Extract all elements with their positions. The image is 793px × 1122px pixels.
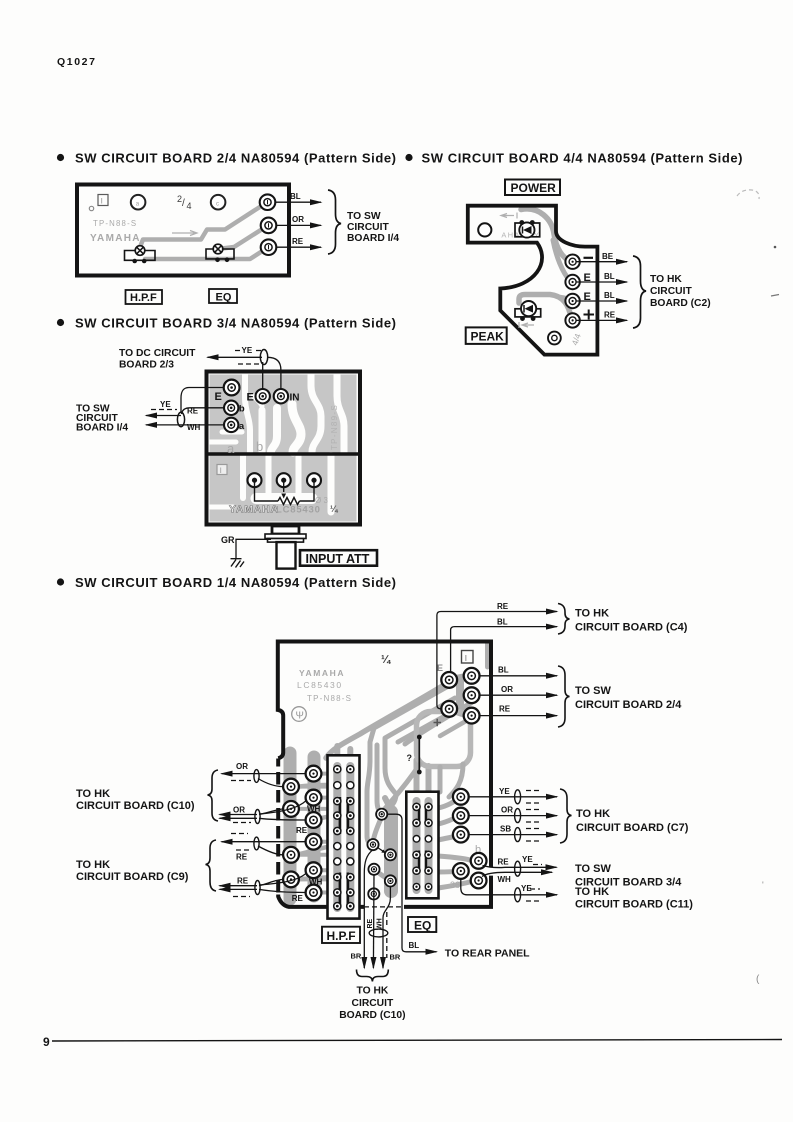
svg-text:LC85430: LC85430 — [297, 680, 343, 690]
mount hole c — [211, 195, 226, 210]
connector EQ pin r1 — [413, 803, 420, 810]
dashed bottom verticals — [386, 912, 388, 958]
pad BL — [260, 194, 276, 210]
connector HPF pin r5 — [334, 827, 341, 834]
trace eq to SB pad — [438, 836, 460, 841]
svg-text:TP-N88-S: TP-N88-S — [307, 694, 352, 703]
pot flange narrow — [268, 539, 304, 543]
trace mid column feed — [385, 798, 391, 812]
svg-text:YE: YE — [242, 346, 253, 355]
svg-text:INPUT ATT: INPUT ATT — [306, 552, 370, 566]
transistor POWER — [515, 223, 540, 237]
pad BL24 — [464, 668, 480, 684]
svg-text:RE: RE — [187, 407, 199, 416]
section title SW CIRCUIT BOARD 2/4 — [57, 154, 64, 161]
label POWER — [505, 180, 560, 196]
pad SB7 — [453, 827, 469, 843]
svg-text:Ø 3: Ø 3 — [315, 496, 328, 505]
pad plus — [441, 701, 457, 717]
section title SW CIRCUIT BOARD 4/4 — [405, 154, 412, 161]
wire branch OR2 — [259, 879, 283, 885]
pad M2 — [367, 839, 378, 850]
wire WH — [146, 424, 224, 426]
footer rule — [52, 1040, 782, 1042]
wire jumper M2-M3 — [378, 848, 384, 852]
svg-text:OR: OR — [236, 762, 248, 771]
wire YE dashed left — [151, 409, 177, 411]
wire RE to C4 — [437, 612, 557, 709]
svg-text:SW CIRCUIT BOARD 1/4 NA80594 (: SW CIRCUIT BOARD 1/4 NA80594 (Pattern Si… — [75, 575, 396, 590]
svg-text:OR: OR — [292, 215, 304, 224]
pad OR7 — [453, 808, 469, 824]
trace blob top pads — [450, 677, 470, 714]
pot pad 2 — [277, 473, 291, 487]
margin speck — [774, 246, 777, 249]
trace power upper — [521, 209, 571, 262]
transistor PEAK — [515, 309, 541, 317]
pad a — [224, 418, 238, 432]
svg-text:WH: WH — [307, 805, 321, 814]
trace band C — [398, 712, 452, 742]
wire branch RE — [259, 818, 306, 820]
pad L-B4 — [306, 834, 322, 850]
silk arrow mark lower — [519, 322, 534, 328]
label EQ connector — [408, 917, 436, 932]
svg-text:RE: RE — [236, 853, 248, 862]
fiducial square 1 — [462, 651, 474, 664]
svg-text:SB: SB — [500, 825, 511, 834]
svg-text:LC85430: LC85430 — [276, 505, 321, 516]
svg-text:RE: RE — [292, 237, 304, 246]
svg-text:BR: BR — [390, 953, 401, 962]
svg-text:TP-N89-S: TP-N89-S — [330, 404, 339, 450]
connector EQ gray fill — [417, 801, 429, 890]
svg-text:/: / — [182, 198, 185, 209]
wire down WH — [383, 886, 390, 968]
connector HPF gray fill — [337, 766, 350, 908]
wire to DC arrow — [208, 356, 263, 358]
pad E lower — [565, 294, 579, 308]
trace hpf-left curves — [298, 785, 333, 879]
channel white paths lower — [210, 456, 332, 513]
svg-text:36: 36 — [450, 880, 460, 890]
svg-text:RE: RE — [498, 858, 510, 867]
silk arrow mark — [172, 231, 197, 236]
trace free pads link 1 — [373, 816, 382, 844]
brace to SW board 1/4 — [328, 190, 341, 254]
svg-text:l: l — [465, 654, 467, 663]
wire RE to SW34 — [483, 866, 557, 868]
pad L-B5 — [306, 862, 322, 878]
svg-text:CIRCUIT BOARD (C4): CIRCUIT BOARD (C4) — [575, 622, 688, 634]
svg-text:BL: BL — [604, 272, 615, 281]
svg-text:YE: YE — [160, 400, 171, 409]
pad RE — [261, 239, 277, 255]
dashed A — [231, 780, 251, 782]
svg-text:¼: ¼ — [381, 654, 391, 666]
wire E to left — [181, 388, 224, 414]
svg-text:WH: WH — [377, 918, 384, 930]
svg-text:OR: OR — [233, 806, 245, 815]
oval junction A — [254, 770, 259, 783]
dashed C9 bottom — [233, 896, 250, 898]
mount hole a — [131, 195, 146, 210]
trace eq to mid pad — [438, 869, 460, 875]
svg-text:IN: IN — [290, 393, 300, 404]
svg-text:l: l — [101, 199, 103, 206]
board 1/4 outline left-top-right — [278, 895, 364, 907]
svg-text:TO HK: TO HK — [575, 886, 609, 898]
trace finger HPF2 — [347, 749, 353, 756]
svg-text:9: 9 — [43, 1035, 50, 1049]
pad L-B1 — [306, 766, 322, 782]
dashed C9 top — [231, 833, 248, 835]
svg-text:TO DC CIRCUIT: TO DC CIRCUIT — [119, 348, 196, 359]
svg-text:BL: BL — [409, 941, 420, 950]
pad M4 — [368, 864, 379, 875]
margin faint mark — [737, 190, 759, 199]
brace SW24 — [558, 666, 570, 727]
pad E upper — [565, 275, 579, 289]
label EQ — [209, 289, 237, 303]
wire SB to C7 — [469, 834, 557, 836]
connector HPF pin r10 — [334, 903, 341, 910]
svg-text:TO SW: TO SW — [347, 211, 381, 222]
svg-text:H.P.F: H.P.F — [130, 292, 157, 304]
svg-text:BL: BL — [497, 617, 508, 626]
pad bottom — [548, 332, 561, 345]
trace power inner — [553, 240, 571, 282]
pad L-A3 — [283, 847, 299, 863]
trace loop ring — [417, 712, 471, 767]
wire down RE — [372, 874, 375, 968]
trace eq to WH pad — [438, 881, 474, 888]
svg-text:TO SW: TO SW — [575, 685, 611, 697]
svg-text:BOARD (C2): BOARD (C2) — [650, 298, 711, 309]
trace band F — [440, 721, 466, 736]
silk arrow mark — [501, 213, 517, 219]
trace peak lower — [519, 295, 571, 318]
pad M3 — [385, 849, 396, 860]
connector EQ pin r5 — [413, 867, 420, 874]
trace loop tail 1 — [438, 767, 443, 792]
pin label plus — [584, 310, 595, 320]
trace eq interior 2 — [424, 800, 433, 892]
wire BL to rear panel — [388, 814, 437, 952]
svg-text:TO HK: TO HK — [356, 986, 388, 997]
connector EQ pin r2 — [413, 819, 420, 826]
wire RE — [182, 408, 224, 414]
pad OR24 — [464, 687, 480, 703]
jumper wire — [418, 737, 420, 772]
svg-text:RE: RE — [292, 894, 304, 903]
pad minus — [565, 255, 579, 269]
wire branch A — [258, 779, 283, 787]
pad M5 — [385, 875, 396, 886]
label H.P.F — [126, 290, 163, 304]
connector EQ pin r6 — [413, 883, 420, 890]
trace left band 1 — [284, 753, 297, 899]
svg-text:RE: RE — [499, 705, 511, 714]
svg-text:TO SW: TO SW — [575, 863, 611, 875]
pad YE7 — [453, 789, 469, 805]
pot pad 1 — [248, 473, 262, 487]
svg-text:4/4: 4/4 — [569, 332, 583, 347]
svg-text:CIRCUIT BOARD (C7): CIRCUIT BOARD (C7) — [576, 822, 689, 834]
svg-text:WH: WH — [309, 878, 323, 887]
trace to free pad — [383, 764, 420, 811]
svg-text:OR: OR — [501, 806, 513, 815]
svg-text:BL: BL — [498, 666, 509, 675]
connector EQ body — [406, 792, 438, 899]
wire BL to SW24 — [480, 675, 557, 677]
wire E up — [262, 362, 264, 389]
board 4/4 outline — [468, 206, 598, 355]
margin speck — [771, 295, 779, 297]
connector HPF pin r1 — [334, 766, 341, 773]
svg-text:CIRCUIT: CIRCUIT — [347, 222, 389, 233]
trace band E — [405, 703, 471, 744]
oval junction C — [254, 837, 259, 850]
pad plus — [565, 313, 579, 327]
svg-text:RE: RE — [237, 877, 249, 886]
svg-text:SW CIRCUIT BOARD 3/4 NA80594 (: SW CIRCUIT BOARD 3/4 NA80594 (Pattern Si… — [75, 316, 396, 331]
connector HPF contact bars — [340, 797, 348, 906]
switch EQ (diode symbol) — [213, 244, 223, 254]
copper pour lower — [210, 456, 357, 522]
dashed B — [233, 822, 251, 824]
label HPF connector — [322, 927, 360, 943]
wire branch C — [258, 846, 283, 855]
wire BE — [576, 261, 627, 263]
svg-text:WH: WH — [187, 423, 201, 432]
pad L-A4 — [283, 872, 299, 888]
pad RE24 — [464, 708, 480, 724]
board 3/4 outline — [207, 372, 361, 525]
connector HPF pin r4 — [334, 812, 341, 819]
svg-text:Q1027: Q1027 — [57, 56, 97, 68]
trace finger EQ1 — [414, 760, 420, 792]
svg-text:': ' — [762, 880, 764, 890]
brace C7 — [560, 789, 572, 843]
svg-text:E: E — [215, 391, 222, 403]
svg-text:WH: WH — [498, 875, 512, 884]
connector HPF body — [328, 755, 360, 918]
fiducial square 1 — [98, 195, 108, 206]
pad L-A1 — [283, 779, 299, 795]
section title SW CIRCUIT BOARD 3/4 — [57, 319, 64, 326]
svg-text:CIRCUIT BOARD 2/4: CIRCUIT BOARD 2/4 — [575, 699, 682, 711]
board 1/4 outline bottom dashed — [364, 906, 401, 908]
label PEAK — [466, 327, 507, 344]
pad C11 — [453, 863, 469, 879]
pot pad 3 — [307, 473, 321, 487]
oval junction D — [255, 881, 260, 895]
oval junction bottom — [369, 929, 388, 937]
pad M6 — [368, 888, 379, 899]
pad M1 — [376, 809, 387, 820]
wire branch OR — [259, 809, 283, 815]
svg-text:BR: BR — [351, 952, 362, 961]
svg-text:CIRCUIT BOARD (C9): CIRCUIT BOARD (C9) — [76, 871, 189, 883]
wire BL — [576, 281, 627, 283]
wire branch WH2 — [259, 873, 306, 885]
trace hpf interior 2 — [346, 763, 355, 905]
svg-text:TO HK: TO HK — [76, 859, 110, 871]
pad E mid — [256, 389, 270, 403]
pin label minus — [584, 257, 594, 259]
connector HPF pin r3 — [334, 798, 341, 805]
svg-text:BE: BE — [602, 252, 614, 261]
copper pour upper — [210, 375, 357, 454]
pad L-B3 — [306, 812, 322, 828]
svg-text:YAMAHA: YAMAHA — [229, 504, 279, 516]
brace C9 — [206, 840, 217, 891]
svg-text:4: 4 — [187, 201, 192, 211]
svg-text:a: a — [227, 441, 235, 456]
pad E left — [224, 380, 240, 396]
wire OR C10 top — [222, 773, 306, 775]
connector EQ contact bars — [419, 804, 426, 872]
trace right edge strip — [485, 643, 490, 667]
svg-text:BL: BL — [290, 192, 301, 201]
svg-text:SW CIRCUIT BOARD 2/4 NA80594 (: SW CIRCUIT BOARD 2/4 NA80594 (Pattern Si… — [75, 151, 396, 166]
svg-text:TO HK: TO HK — [650, 274, 682, 285]
wire C9 bundle — [220, 885, 258, 887]
trace eq to YE pad — [438, 798, 460, 809]
wire RE — [576, 319, 627, 321]
wire YE dashed lower — [238, 363, 262, 365]
trace BL on board 2/4 — [140, 203, 266, 247]
connector HPF pin r7 — [334, 858, 341, 865]
trace eq to RE pad — [438, 856, 474, 861]
pad RE34 — [471, 853, 487, 869]
wire C9 top — [222, 841, 306, 843]
wire OR C10 lower bundle — [220, 814, 258, 816]
connector HPF pin r2 — [334, 782, 341, 789]
trace free pads link 2 — [375, 870, 389, 880]
connector EQ pin r3 — [413, 836, 420, 843]
board 1/4 outline bottom-right — [404, 876, 491, 907]
svg-text:BOARD I/4: BOARD I/4 — [347, 233, 399, 244]
wire YE dashed top — [235, 350, 261, 352]
wire YE to C7 — [469, 796, 557, 798]
wire YE to C11 — [461, 879, 557, 895]
wire down BR1 — [364, 850, 373, 968]
svg-text:CIRCUIT BOARD (C10): CIRCUIT BOARD (C10) — [76, 800, 195, 812]
svg-text:EQ: EQ — [414, 918, 431, 932]
pot bushing — [272, 526, 299, 534]
pad IN — [274, 389, 288, 403]
svg-text:CIRCUIT BOARD (C11): CIRCUIT BOARD (C11) — [575, 899, 693, 911]
trace left band 2 — [308, 757, 321, 896]
board 1/4 outline left upper — [278, 642, 491, 868]
svg-text:TO HK: TO HK — [576, 808, 610, 820]
svg-text:POWER: POWER — [511, 181, 557, 195]
trace RE on board 2/4 — [145, 248, 267, 259]
wire RE to SW24 — [480, 715, 557, 717]
dashed RE mark — [236, 849, 251, 851]
svg-text:YE: YE — [522, 855, 533, 864]
silk trademark — [292, 707, 307, 722]
svg-text:c: c — [216, 202, 219, 208]
svg-text:TO REAR PANEL: TO REAR PANEL — [445, 948, 530, 960]
svg-text:?: ? — [407, 753, 413, 763]
pot flange wide — [265, 534, 306, 539]
wire BL to C4 — [451, 627, 557, 673]
pad WH34 — [471, 873, 487, 889]
trace mid column — [384, 812, 398, 891]
silk square 1 — [217, 465, 227, 475]
wire to DC board: oval junction — [260, 350, 267, 365]
trace finger HPF1 — [334, 746, 340, 756]
svg-text:CIRCUIT: CIRCUIT — [650, 286, 692, 297]
wire WH to SW34 — [482, 872, 552, 876]
pot shaft — [277, 542, 296, 569]
svg-text:YAMAHA: YAMAHA — [299, 668, 345, 678]
wire RE — [277, 246, 322, 248]
svg-text:PEAK: PEAK — [471, 330, 505, 344]
svg-text:H.P.F: H.P.F — [327, 929, 356, 943]
svg-text:BOARD (C10): BOARD (C10) — [339, 1010, 405, 1021]
pad OR — [261, 218, 277, 234]
svg-text:RE: RE — [367, 918, 374, 928]
svg-text:b: b — [239, 404, 245, 415]
svg-text:E: E — [437, 663, 443, 673]
wire branch RE2 — [259, 889, 306, 892]
oval junction B — [255, 810, 260, 824]
svg-text:RE: RE — [604, 311, 616, 320]
brace to HK C2 — [633, 256, 646, 328]
svg-text:OR: OR — [501, 685, 513, 694]
svg-text:TO HK: TO HK — [575, 608, 609, 620]
connector HPF pin r6 — [334, 843, 341, 850]
board 2/4 outline — [77, 185, 289, 276]
svg-text:a: a — [239, 421, 245, 432]
svg-text:Ψ: Ψ — [296, 711, 304, 722]
switch HPF (diode symbol) — [135, 246, 145, 256]
connector HPF pin r9 — [334, 889, 341, 896]
connector EQ pin r4 — [413, 851, 420, 858]
board 1/4 outline left dashed — [276, 759, 280, 893]
oval junction left — [177, 412, 184, 426]
wire BL2 — [576, 300, 627, 302]
fiducial dot — [89, 206, 93, 210]
svg-text:b: b — [256, 439, 263, 454]
pad L-B2 — [306, 790, 322, 806]
trace loop tail 2 — [449, 764, 463, 797]
trace band B — [384, 698, 455, 812]
trace band B2 — [377, 745, 381, 814]
trace band D — [326, 682, 449, 758]
channel white paths upper — [210, 375, 345, 453]
underbrace C10 — [357, 970, 389, 982]
svg-text:RE: RE — [497, 602, 509, 611]
svg-text:TO HK: TO HK — [76, 788, 110, 800]
trace eq interior 1 — [412, 800, 421, 892]
svg-text:CIRCUIT: CIRCUIT — [352, 998, 394, 1009]
svg-text:BOARD I/4: BOARD I/4 — [76, 423, 128, 434]
trace hpf interior 1 — [333, 763, 342, 905]
pad b — [224, 401, 238, 415]
trace peak stub — [560, 297, 571, 301]
svg-text:YE: YE — [499, 787, 510, 796]
wire branch WH — [259, 801, 306, 814]
mount hole — [478, 223, 491, 236]
wire IN up — [268, 357, 281, 388]
svg-text:BOARD 2/3: BOARD 2/3 — [119, 360, 174, 371]
brace C4 — [558, 604, 570, 635]
